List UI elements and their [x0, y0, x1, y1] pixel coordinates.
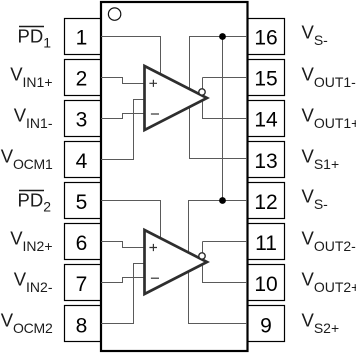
svg-text:7: 7 — [76, 273, 88, 296]
svg-text:VOUT1+: VOUT1+ — [302, 105, 356, 132]
svg-text:15: 15 — [254, 68, 277, 91]
svg-text:VS2+: VS2+ — [302, 310, 340, 337]
svg-text:VIN2+: VIN2+ — [10, 228, 52, 255]
svg-text:VIN1-: VIN1- — [14, 105, 53, 132]
svg-text:13: 13 — [254, 150, 277, 173]
svg-text:6: 6 — [76, 232, 88, 255]
svg-text:VIN2-: VIN2- — [14, 269, 53, 296]
svg-text:10: 10 — [254, 273, 277, 296]
svg-text:3: 3 — [76, 109, 88, 132]
svg-text:8: 8 — [76, 315, 88, 338]
svg-text:VS1+: VS1+ — [302, 146, 340, 173]
svg-text:VS-: VS- — [302, 186, 329, 213]
svg-text:14: 14 — [254, 109, 278, 132]
svg-text:12: 12 — [254, 191, 277, 214]
svg-text:VIN1+: VIN1+ — [10, 64, 52, 91]
svg-text:VOUT1-: VOUT1- — [302, 64, 356, 91]
svg-text:5: 5 — [76, 191, 88, 214]
svg-text:VOUT2-: VOUT2- — [302, 228, 356, 255]
svg-text:VOUT2+: VOUT2+ — [302, 269, 356, 296]
svg-text:PD2: PD2 — [18, 190, 52, 215]
svg-text:16: 16 — [254, 27, 277, 50]
svg-text:2: 2 — [76, 68, 88, 91]
svg-text:VOCM2: VOCM2 — [1, 310, 53, 337]
svg-text:VS-: VS- — [302, 22, 329, 49]
svg-text:VOCM1: VOCM1 — [1, 146, 53, 173]
svg-text:11: 11 — [255, 232, 277, 255]
svg-text:1: 1 — [76, 27, 88, 50]
svg-text:PD1: PD1 — [18, 26, 52, 51]
svg-text:9: 9 — [260, 315, 272, 338]
svg-text:4: 4 — [76, 150, 88, 173]
